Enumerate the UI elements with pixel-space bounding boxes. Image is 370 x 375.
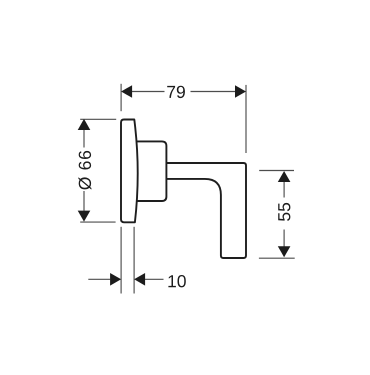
dimension 10: right leader line: [145, 278, 164, 280]
dimension 10: right arrowhead (pointing left): [134, 273, 145, 286]
dimension Ø66: bottom extension line: [80, 221, 115, 223]
dimension 10: right extension line: [133, 227, 135, 294]
lever handle (horizontal stem bending down): [166, 163, 246, 258]
dimension Ø66: dimension line top segment: [83, 129, 85, 148]
dimension Ø66: top extension line: [80, 118, 116, 120]
dimension Ø66: bottom arrowhead: [78, 211, 91, 222]
dimension Ø66: dimension line bottom segment: [83, 191, 85, 211]
dimension 10: value label: [168, 275, 185, 287]
dimension 10: left leader line: [88, 278, 110, 280]
dimension Ø66: top arrowhead: [78, 119, 91, 130]
dimension 55: top arrowhead: [278, 171, 291, 182]
dimension 55: bottom arrowhead: [278, 246, 291, 257]
dimension 79: left extension line: [120, 84, 122, 111]
dimension 55: value label (rotated): [278, 203, 290, 221]
dimension 55: dimension line bottom segment: [283, 230, 285, 247]
dimension 55: bottom extension line: [259, 257, 295, 259]
dimension 79: right arrowhead: [235, 85, 246, 98]
dimension 79: dimension line left segment: [132, 91, 165, 93]
dimension 55: dimension line top segment: [283, 181, 285, 198]
escutcheon plate (side view, convex face): [121, 120, 138, 223]
dimension 10: left extension line: [120, 227, 122, 294]
dimension 10: left arrowhead (pointing right): [110, 273, 121, 286]
dimension 55: top extension line: [259, 170, 294, 172]
handle hub (boss on plate): [136, 141, 166, 201]
dimension Ø66: value label (rotated): [78, 151, 91, 190]
dimension 79: left arrowhead: [121, 85, 132, 98]
dimension 79: dimension line right segment: [191, 91, 236, 93]
dimension 79: right extension line: [245, 85, 247, 153]
dimension 79: value label: [167, 86, 185, 98]
